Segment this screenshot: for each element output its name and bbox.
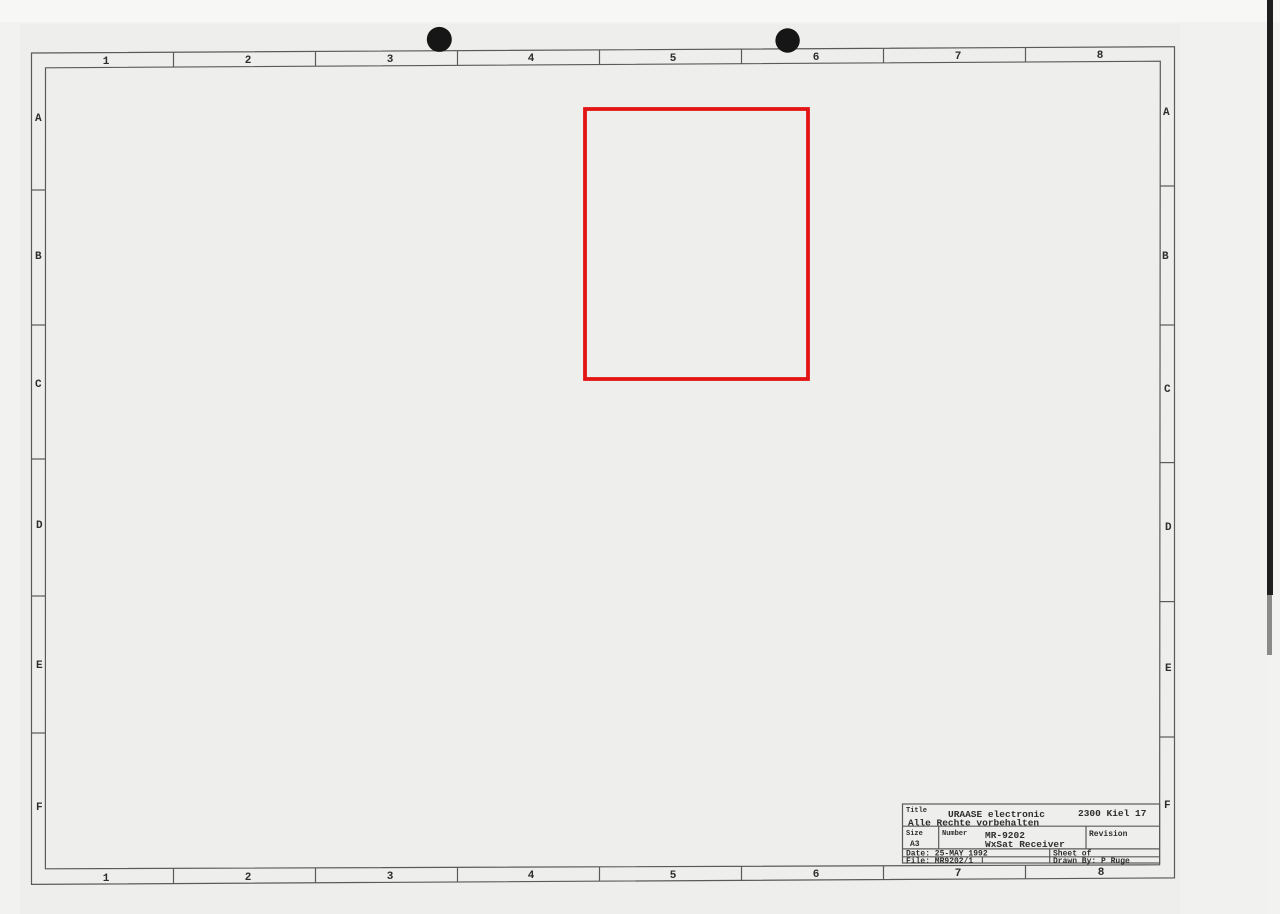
right grid ticks: [1160, 186, 1175, 737]
scanner dark right edge: [1267, 0, 1273, 595]
grid row letters left: [35, 113, 43, 814]
svg-text:C: C: [35, 379, 42, 391]
highlight red box: [585, 109, 808, 379]
svg-text:Title: Title: [906, 807, 927, 815]
svg-text:D: D: [36, 520, 43, 532]
svg-text:Drawn By: P Ruge: Drawn By: P Ruge: [1053, 857, 1130, 866]
svg-text:1: 1: [103, 56, 110, 68]
svg-text:7: 7: [955, 868, 962, 880]
svg-text:WxSat Receiver: WxSat Receiver: [985, 839, 1065, 850]
svg-text:5: 5: [670, 53, 677, 65]
inner drawing frame: [45, 61, 1160, 869]
punch hole right: [775, 28, 799, 52]
svg-text:1: 1: [103, 873, 110, 885]
svg-text:4: 4: [528, 53, 535, 65]
svg-text:4: 4: [528, 870, 535, 882]
svg-text:7: 7: [955, 51, 962, 63]
punch hole left: [427, 27, 452, 52]
svg-text:C: C: [1164, 384, 1171, 396]
svg-text:E: E: [36, 660, 43, 672]
grid column numbers top: [103, 50, 1104, 68]
top grid ticks: [174, 48, 1026, 68]
svg-text:3: 3: [387, 54, 394, 66]
title block: [903, 804, 1160, 863]
svg-text:D: D: [1165, 522, 1172, 534]
grid row letters right: [1162, 107, 1172, 812]
svg-text:Size: Size: [906, 830, 923, 838]
svg-text:A3: A3: [910, 840, 920, 849]
bottom grid ticks: [174, 865, 1026, 883]
svg-text:File: MR9202/1: File: MR9202/1: [906, 857, 973, 866]
svg-text:2: 2: [245, 872, 252, 884]
svg-text:8: 8: [1098, 867, 1105, 879]
svg-text:A: A: [1163, 107, 1170, 119]
svg-text:2: 2: [245, 55, 252, 67]
svg-text:F: F: [36, 802, 43, 814]
svg-text:Alle Rechte vorbehalten: Alle Rechte vorbehalten: [908, 818, 1039, 829]
svg-text:6: 6: [813, 52, 820, 64]
grid column numbers bottom: [103, 867, 1105, 885]
svg-text:8: 8: [1097, 50, 1104, 62]
left grid ticks: [32, 190, 46, 733]
svg-text:Revision: Revision: [1089, 830, 1128, 839]
svg-text:E: E: [1165, 663, 1172, 675]
svg-text:Number: Number: [942, 830, 967, 838]
svg-text:5: 5: [670, 870, 677, 882]
svg-text:6: 6: [813, 869, 820, 881]
svg-text:A: A: [35, 113, 42, 125]
svg-text:2300 Kiel 17: 2300 Kiel 17: [1078, 808, 1147, 819]
svg-text:B: B: [35, 251, 42, 263]
svg-text:3: 3: [387, 871, 394, 883]
svg-text:B: B: [1162, 251, 1169, 263]
svg-text:F: F: [1164, 800, 1171, 812]
